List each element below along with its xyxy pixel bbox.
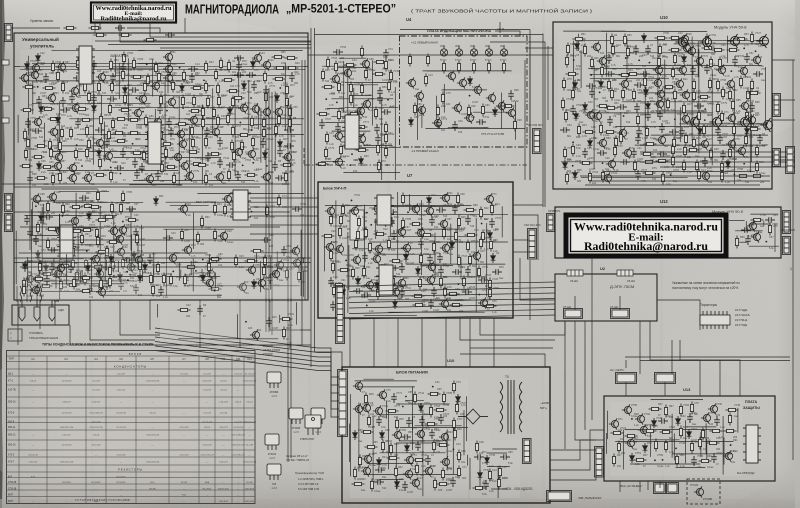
capacitor C81: [335, 123, 341, 133]
node junction: [135, 97, 137, 99]
transistor VT81: [686, 45, 696, 56]
transistor VT110: [602, 172, 612, 183]
tape head B1: [19, 300, 25, 321]
wire: [155, 342, 339, 402]
resistor R340: [329, 214, 332, 227]
resistor R264: [708, 78, 711, 91]
resistor R102: [49, 147, 52, 160]
diode VD66: [405, 443, 410, 453]
resistor R348: [356, 229, 359, 242]
resistor R462: [660, 430, 673, 433]
wire: [31, 234, 65, 236]
diode VD47: [491, 253, 496, 263]
resistor R201: [349, 93, 352, 106]
wire: [593, 66, 595, 169]
resistor R117: [191, 162, 204, 165]
resistor R183: [94, 33, 107, 36]
transistor VT34: [246, 148, 256, 159]
resistor R274: [698, 95, 711, 98]
transistor VT16: [709, 115, 721, 129]
wire: [103, 294, 222, 296]
transistor VT148: [270, 268, 280, 279]
capacitor C168: [401, 434, 411, 440]
transistor VT12: [150, 80, 160, 91]
resistor R61: [99, 114, 102, 127]
circuit section: [470, 440, 520, 498]
transistor VT8: [29, 69, 39, 80]
resistor R392: [38, 261, 41, 274]
wire: [155, 346, 339, 409]
node junction: [166, 110, 168, 112]
resistor R224: [441, 92, 444, 105]
resistor R473: [612, 454, 615, 467]
resistor R62: [111, 118, 114, 131]
resistor R309: [641, 152, 654, 155]
transistor VT9: [486, 92, 496, 103]
wire: [749, 223, 771, 225]
diode VD36: [574, 111, 579, 121]
capacitor C176: [474, 454, 484, 460]
legend box: [8, 329, 22, 341]
capacitor C157: [123, 257, 133, 263]
circuit section: [406, 74, 525, 140]
resistor R111: [232, 150, 235, 163]
capacitor C19: [91, 94, 97, 104]
resistor R300: [619, 132, 622, 145]
wire: [763, 221, 765, 226]
capacitor C15: [263, 86, 269, 96]
wire: [529, 260, 531, 320]
op-amp DA2: [342, 115, 362, 149]
wire: [57, 129, 59, 151]
lamp VD6: [485, 46, 492, 57]
transistor VT7: [19, 72, 29, 83]
capacitor C1: [234, 55, 244, 61]
capacitor C100: [634, 82, 644, 88]
transistor VT15: [166, 96, 176, 107]
circuit section: [324, 192, 508, 313]
dashed option box: [687, 479, 720, 504]
wire: [364, 205, 366, 276]
resistor R232: [610, 34, 613, 47]
transistor VT52: [115, 246, 125, 257]
package icon КТ807: [311, 408, 325, 424]
resistor R195: [389, 70, 392, 83]
resistor R399: [33, 277, 46, 280]
wire: [664, 382, 666, 396]
transistor VT31: [103, 150, 113, 161]
transistor VT79: [591, 41, 601, 52]
transistor VT6: [446, 70, 456, 81]
resistor R210: [384, 132, 387, 145]
resistor R333: [751, 174, 764, 177]
transistor VT17: [132, 107, 142, 118]
transistor VT172: [723, 450, 733, 461]
transistor VT16: [70, 102, 80, 113]
transistor VT166: [708, 403, 718, 414]
capacitor C114: [679, 127, 685, 137]
wire: [270, 257, 272, 290]
resistor R279: [561, 98, 564, 111]
transistor VT4: [56, 61, 66, 72]
wire: [635, 144, 767, 146]
transistor VT32: [172, 151, 182, 162]
transistor VT63: [290, 245, 300, 256]
wire: [434, 233, 436, 279]
wire: [691, 37, 693, 141]
transistor VT64: [274, 259, 284, 270]
resistor R451: [473, 486, 486, 489]
transistor VT101: [746, 114, 756, 125]
resistor R169: [213, 203, 216, 216]
connector XP30: [595, 447, 604, 478]
node junction: [675, 448, 677, 450]
wire: [625, 382, 627, 396]
capacitor C14: [251, 81, 257, 91]
transistor VT152: [353, 403, 363, 414]
resistor R342: [357, 216, 360, 229]
transistor VT10: [163, 72, 173, 83]
diode VD70: [478, 470, 483, 480]
transistor VT112: [440, 192, 450, 203]
capacitor C43: [272, 161, 278, 171]
resistor R357: [368, 241, 371, 254]
diode VD71: [652, 418, 657, 428]
node junction: [349, 164, 351, 166]
capacitor C91: [606, 54, 612, 64]
resistor R371: [362, 266, 365, 279]
block U13 плата защиты border: [604, 396, 775, 481]
resistor R432: [389, 443, 392, 456]
resistor R452: [497, 477, 500, 490]
resistor R90: [48, 139, 51, 152]
wire: [387, 410, 389, 469]
resistor R402: [99, 278, 102, 291]
wire: [77, 134, 215, 136]
resistor R449: [488, 469, 491, 482]
transistor VT68: [360, 58, 370, 69]
capacitor C6: [43, 73, 49, 83]
resistor R374: [391, 276, 394, 289]
capacitor C106: [749, 102, 755, 112]
resistor R9: [132, 58, 135, 71]
resistor R159: [92, 265, 105, 268]
connector XS2: [5, 194, 13, 212]
transistor VT40: [82, 172, 92, 183]
wire: [347, 84, 378, 86]
wire: [400, 427, 468, 429]
resistor R132: [46, 201, 49, 214]
wire: [584, 321, 586, 430]
wire: [421, 318, 423, 367]
capacitor C83: [345, 136, 351, 146]
diode VD35: [646, 101, 651, 111]
wire: [51, 283, 118, 285]
resistor R321: [682, 160, 685, 173]
wire: [590, 180, 770, 182]
block U10 блок питания border: [342, 367, 550, 503]
resistor R476: [699, 459, 712, 462]
wire: [749, 86, 751, 172]
transistor VT106: [726, 138, 736, 149]
resistor R391: [209, 257, 222, 260]
wire: [603, 170, 755, 172]
resistor R147: [46, 238, 49, 251]
wire: [513, 239, 529, 241]
wire: [380, 452, 446, 454]
node junction: [457, 283, 459, 285]
wire: [445, 318, 447, 367]
wire: [386, 401, 388, 419]
paper crease: [388, 0, 389, 508]
transistor VT87: [716, 64, 726, 75]
transistor VT123: [324, 241, 334, 252]
wire: [106, 260, 108, 271]
resistor R38: [285, 84, 288, 97]
capacitor C44: [27, 174, 33, 184]
wire: [574, 296, 576, 310]
resistor R325: [565, 172, 568, 185]
diode VD56: [86, 263, 91, 273]
transistor VT155: [392, 429, 402, 440]
wire: [279, 315, 281, 323]
capacitor C96: [690, 65, 696, 75]
wire: [197, 193, 304, 195]
capacitor C93: [744, 53, 750, 63]
resistor R433: [432, 440, 435, 453]
resistor R23: [222, 78, 235, 81]
capacitor C4: [188, 66, 198, 72]
wire: [564, 321, 566, 449]
wire: [679, 123, 768, 125]
wire: [141, 225, 143, 265]
transistor VT127: [440, 242, 450, 253]
node junction: [638, 59, 640, 61]
wire: [644, 69, 646, 153]
resistor R33: [171, 80, 174, 93]
resistor R407: [183, 274, 186, 287]
diode VD24: [359, 156, 364, 166]
resistor R221: [487, 61, 490, 74]
diode VD23: [241, 194, 246, 204]
resistor R324: [755, 161, 758, 174]
wire: [625, 429, 712, 431]
bridge rectifier VD1-VD4: [458, 409, 488, 424]
wire: [397, 192, 399, 260]
node junction: [242, 164, 244, 166]
wire: [178, 338, 278, 340]
wire: [659, 481, 661, 488]
connector XS6: [528, 229, 537, 260]
op-amp DA5: [376, 265, 396, 295]
resistor R296: [702, 124, 705, 137]
diode VD74: [643, 443, 648, 453]
node junction: [245, 321, 247, 323]
wire: [480, 318, 565, 335]
wire: [325, 204, 472, 206]
wire: [304, 60, 306, 300]
capacitor C131: [429, 216, 435, 226]
transistor VT41: [144, 173, 154, 184]
resistor R121: [51, 173, 54, 186]
resistor R338: [479, 207, 482, 220]
wire: [660, 166, 795, 168]
connector УЗ-Ш1a: [567, 270, 583, 276]
wire: [651, 134, 768, 136]
connector XP11: [773, 149, 781, 167]
resistor R25: [273, 77, 286, 80]
diode VD58: [143, 262, 148, 272]
wire: [446, 429, 448, 470]
node junction: [704, 108, 706, 110]
resistor R99: [251, 136, 254, 149]
transistor VT105: [699, 138, 709, 149]
diode VD28: [642, 33, 647, 43]
transistor VT2: [252, 52, 262, 63]
wire: [167, 56, 169, 93]
resistor R172: [200, 216, 203, 229]
wire: [133, 179, 254, 181]
resistor R83: [190, 125, 193, 138]
transistor VT146: [96, 286, 106, 297]
circuit section: [18, 252, 230, 298]
resistor R173: [180, 229, 183, 242]
resistor R291: [577, 124, 580, 137]
capacitor C182: [691, 456, 697, 466]
resistor R472: [707, 441, 720, 444]
wire: [14, 257, 311, 259]
capacitor C151: [462, 289, 472, 295]
resistor R361: [479, 237, 482, 250]
circuit section: [20, 190, 150, 300]
wire: [324, 236, 326, 271]
transistor VT149: [256, 277, 266, 288]
wire: [529, 36, 531, 180]
wire: [402, 195, 460, 197]
transistor VT160: [440, 456, 450, 467]
transistor VT158: [362, 453, 372, 464]
wire: [465, 396, 467, 441]
wire: [44, 123, 46, 145]
wire: [417, 99, 419, 140]
resistor R118: [196, 163, 209, 166]
resistor R31: [110, 81, 113, 94]
wire: [397, 318, 399, 367]
resistor R272: [673, 89, 676, 102]
resistor R318: [643, 160, 656, 163]
wire: [142, 270, 144, 282]
wire: [14, 66, 308, 68]
resistor R30: [97, 81, 100, 94]
diode VD40: [563, 160, 568, 170]
resistor R57: [212, 107, 215, 120]
resistor R270: [621, 88, 624, 101]
resistor R133: [61, 203, 64, 216]
resistor R249: [590, 57, 593, 70]
resistor R15: [286, 66, 299, 69]
resistor R436: [387, 456, 400, 459]
node junction: [469, 95, 471, 97]
capacitor C21: [60, 107, 70, 113]
connector XP13: [783, 211, 791, 234]
resistor R269: [610, 88, 613, 101]
connector XB1: [654, 483, 666, 494]
diode VD26: [493, 107, 498, 117]
transistor VT92: [725, 78, 735, 89]
transistor VT128: [351, 254, 361, 265]
resistor R429: [453, 428, 456, 441]
wire: [109, 85, 215, 87]
capacitor C63: [104, 280, 110, 290]
diode VD33: [644, 87, 649, 97]
resistor R405: [162, 273, 165, 286]
resistor R73: [288, 117, 291, 130]
wire: [310, 345, 312, 367]
resistor R259: [562, 78, 565, 91]
wire: [443, 84, 445, 113]
op-amp DA1C: [57, 225, 76, 259]
resistor R242: [626, 46, 629, 59]
resistor R14: [274, 66, 287, 69]
resistor R287: [636, 114, 639, 127]
transistor VT35: [282, 151, 292, 162]
resistor R140: [103, 215, 116, 218]
resistor R5: [51, 61, 54, 74]
transistor VT5a: [416, 104, 426, 115]
resistor R138: [119, 202, 122, 215]
wire: [271, 92, 273, 335]
capacitor C48: [275, 175, 285, 181]
capacitor C116: [635, 134, 641, 144]
capacitor C143: [465, 266, 471, 276]
capacitor C102: [570, 105, 576, 115]
wire: [114, 157, 222, 159]
transistor VT12: [464, 112, 474, 123]
resistor R301: [644, 142, 657, 145]
wire: [406, 263, 505, 265]
resistor R248: [565, 55, 568, 68]
resistor R174: [196, 232, 199, 245]
resistor R406: [169, 274, 172, 287]
diode VD48: [380, 264, 385, 274]
connector XS3: [5, 214, 13, 232]
resistor R236: [705, 34, 708, 47]
wire: [152, 59, 154, 97]
node junction: [86, 250, 88, 252]
resistor R85: [238, 133, 251, 136]
transistor VT50: [117, 224, 127, 235]
wire: [473, 111, 508, 113]
resistor R430: [365, 445, 378, 448]
wire: [463, 410, 465, 455]
resistor R103: [74, 148, 77, 161]
transistor VT18: [737, 115, 749, 129]
wire: [268, 88, 270, 332]
wire: [372, 60, 374, 125]
resistor R373: [333, 283, 346, 286]
transistor VT20: [760, 118, 772, 132]
wire: [50, 150, 148, 152]
wire: [501, 206, 503, 237]
transistor VT45: [31, 193, 41, 204]
wire: [651, 398, 703, 400]
resistor R82: [159, 129, 162, 142]
wire: [735, 230, 763, 232]
resistor R128: [245, 173, 258, 176]
resistor R181: [64, 26, 77, 29]
wire: [460, 354, 545, 367]
wire: [399, 440, 444, 442]
